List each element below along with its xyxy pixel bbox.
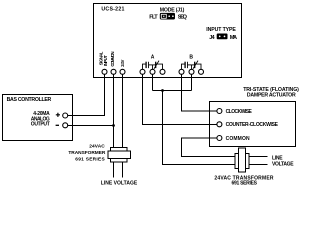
terminal 24V [120,69,125,74]
svg-text:691 SERIES: 691 SERIES [232,181,258,187]
wire from junction down to transformer T2 lower [163,91,236,165]
svg-text:LINE VOLTAGE: LINE VOLTAGE [101,181,138,187]
terminal A1 [140,69,145,74]
svg-text:B: B [189,54,193,60]
jumper J1 block [160,13,175,20]
svg-text:FLT: FLT [149,15,158,21]
svg-text:COMMON: COMMON [110,51,115,66]
terminal A2 [150,69,155,74]
terminal BAS - [63,123,68,128]
svg-text:691 SERIES: 691 SERIES [75,156,105,162]
svg-text:INPUT TYPE: INPUT TYPE [206,27,236,33]
terminal counter-clockwise [217,122,222,127]
wire T1 bottom leads [114,162,123,178]
svg-text:A: A [151,55,155,61]
label - [56,124,59,126]
terminal B1 [179,69,184,74]
svg-text:MODE (J1): MODE (J1) [160,8,185,14]
wire 24V down to transformer T1 [122,74,124,147]
svg-text:CLOCKWISE: CLOCKWISE [226,109,253,115]
relay contacts B [182,61,202,70]
transformer T1 (24VAC 691 series, left) [108,148,131,163]
terminal SIGNAL INPUT [102,69,107,74]
terminal BAS + [63,113,68,118]
wire B-left to clockwise [182,74,218,111]
svg-text:24V: 24V [120,60,125,67]
wire common of actuator to transformer T2 upper [182,138,236,157]
label + [56,113,60,117]
svg-text:J4: J4 [209,35,215,41]
terminal B2 [189,69,194,74]
BAS controller box [3,95,73,141]
transformer T2 (24VAC 691 series, right) [235,148,249,172]
svg-text:24VAC: 24VAC [89,144,105,150]
svg-text:SEQ: SEQ [178,15,188,21]
terminal common actuator [217,136,222,141]
terminal circles UCS [63,69,222,140]
wire - output to COMMON wire [68,125,114,127]
svg-text:DAMPER ACTUATOR: DAMPER ACTUATOR [247,92,296,98]
svg-text:UCS-221: UCS-221 [101,7,124,13]
svg-text:OUTPUT: OUTPUT [31,122,50,128]
wire A-left to counter-clockwise [143,74,218,124]
terminal COMMON [111,69,116,74]
terminal clockwise [217,109,222,114]
relay contacts A [143,61,163,70]
junction dot bus/down wire [161,89,164,92]
wire COMMON down to transformer T1 [113,74,115,147]
damper actuator box [210,102,296,147]
svg-text:MA: MA [230,35,237,41]
svg-text:INPUT: INPUT [103,55,108,66]
jumper J4 block [217,34,228,40]
svg-text:COUNTER-CLOCKWISE: COUNTER-CLOCKWISE [226,122,279,128]
wire A-mid stub [152,74,154,90]
wire T2 right leads to line voltage [249,157,268,165]
terminal B3 [199,69,204,74]
svg-text:COMMON: COMMON [226,136,250,142]
svg-text:BAS CONTROLLER: BAS CONTROLLER [7,97,52,103]
wire SIGNAL INPUT to + [68,74,105,115]
controller box UCS-221 [94,4,242,78]
terminal A3 [160,69,165,74]
junction dot - / common [112,124,115,127]
svg-text:VOLTAGE: VOLTAGE [272,162,294,168]
svg-text:TRANSFORMER: TRANSFORMER [68,150,106,156]
wire bus A-mid to B-mid [153,74,192,90]
